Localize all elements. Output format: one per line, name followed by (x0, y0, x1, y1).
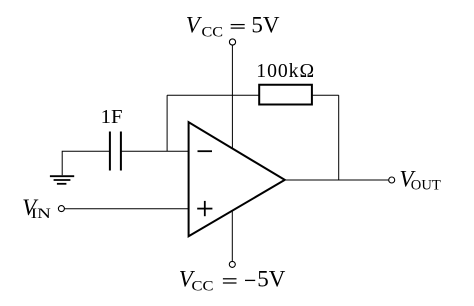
svg-text:CC: CC (192, 279, 214, 295)
op-amp inverting input marker (minus) (198, 150, 213, 152)
ground (50, 176, 74, 184)
node VCC+ terminal (229, 39, 235, 45)
wire op-amp bottom to VCC- terminal (231, 210, 233, 261)
wire feedback top horizontal (167, 94, 339, 96)
svg-text:5V: 5V (251, 13, 280, 38)
op-amp non-inverting input marker (plus) (197, 201, 212, 216)
wire op-amp output to VOUT terminal (286, 179, 389, 181)
wire VIN terminal to non-inverting input (64, 208, 188, 210)
net label VOUT (399, 167, 440, 194)
svg-text:CC: CC (202, 24, 224, 40)
wire feedback left vertical (166, 95, 168, 151)
net label VCC = 5V (186, 13, 280, 41)
svg-text:100kΩ: 100kΩ (256, 60, 315, 82)
node VIN terminal (58, 206, 64, 212)
svg-text:1F: 1F (101, 107, 123, 128)
net label VCC = -5V (179, 267, 286, 295)
svg-text:OUT: OUT (411, 177, 441, 193)
svg-text:IN: IN (31, 206, 51, 222)
svg-text:5V: 5V (257, 267, 286, 292)
node VCC- terminal (229, 261, 235, 267)
net label VIN (22, 195, 51, 222)
capacitor C1 (110, 132, 121, 171)
wire feedback right vertical (338, 95, 340, 180)
node VOUT terminal (389, 177, 395, 183)
op-amp U1 (189, 122, 285, 236)
wire ground to capacitor (62, 151, 110, 175)
wire capacitor to inverting input (121, 150, 189, 152)
resistor R1 (259, 85, 312, 105)
wire VCC+ terminal to op-amp top (231, 45, 233, 148)
